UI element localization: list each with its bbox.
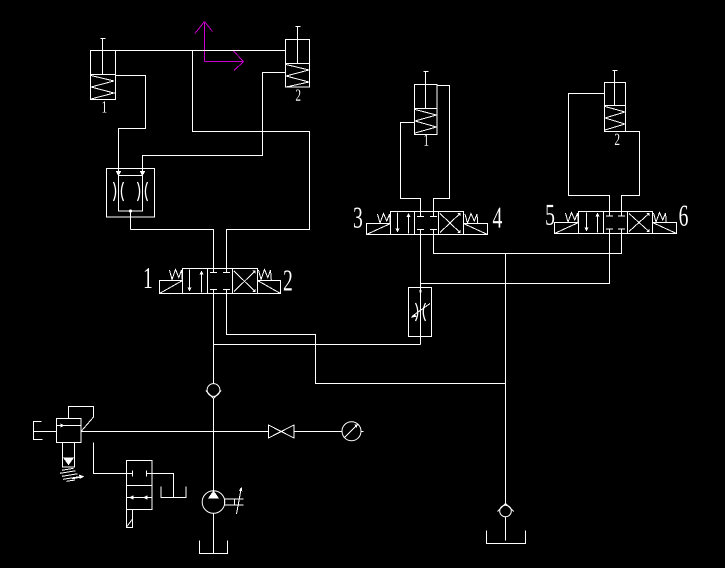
valve V34 4/3 solenoid valve body xyxy=(391,212,464,235)
pump P (variable displacement) xyxy=(202,487,243,514)
wire tank branch down from line A xyxy=(505,254,507,506)
wire flow divider output to valve port A xyxy=(131,211,214,269)
wire pump pressure line (V12 port P down) xyxy=(213,294,215,384)
label 1 (middle actuator) xyxy=(424,134,428,145)
wire check valve CV1 to pump xyxy=(213,399,215,491)
spring left of V34 xyxy=(378,214,391,224)
gauge G (pressure gauge) xyxy=(342,422,364,441)
wire mid cylinder left port to valve V34 xyxy=(401,123,421,212)
solenoid right of V56 xyxy=(653,223,677,234)
wire FCV bottom to pump line xyxy=(214,344,421,346)
solenoid left of V34 xyxy=(367,224,391,235)
actuator cylinder 1 (middle, spring return) xyxy=(415,72,438,135)
wire line A valve V34 port to valve V56 port xyxy=(434,234,622,254)
wire line B FCV tap to valve V56 port xyxy=(421,234,610,284)
label 1 (valve V12 left) xyxy=(145,268,152,288)
label 2 (right actuator) xyxy=(615,134,620,145)
wire right cylinder bottom port to valve V56 xyxy=(622,132,640,212)
label 4 (valve V34 right) xyxy=(493,208,502,228)
cylinder 1 (top-left, spring return) xyxy=(91,39,116,100)
label 2 (cylinder 2) xyxy=(296,89,301,100)
wire pump to tank T1 xyxy=(213,513,215,553)
spring right of V34 xyxy=(465,214,478,224)
flow divider FD xyxy=(107,169,155,218)
label 2 (valve V12 right) xyxy=(284,270,292,290)
label 6 (valve V56 right) xyxy=(679,206,687,226)
wire cylinder1 spring port to flow divider left xyxy=(116,76,146,173)
spring left of V56 xyxy=(566,213,579,223)
check valve CV1 (pump line) xyxy=(206,384,221,399)
wire unloader to tank T3 xyxy=(152,474,174,498)
solenoid left of V12 xyxy=(160,281,183,294)
check valve CV2 (bottom right) xyxy=(498,504,514,517)
wire center drop to valve port B xyxy=(193,51,310,269)
port bracket (left pilot connection) xyxy=(34,422,57,440)
relief valve RV spring (diagonal zigzag with arrow) xyxy=(60,468,84,481)
wire check valve CV2 to tank xyxy=(505,517,507,541)
valve V56 4/3 solenoid valve body xyxy=(579,212,653,234)
solenoid left of V56 xyxy=(555,223,579,234)
wire relief valve drain to unloader xyxy=(94,443,127,474)
label 5 (valve V56 left) xyxy=(546,205,554,225)
tank T1 (pump suction) xyxy=(200,541,228,554)
spring right of V56 xyxy=(654,213,667,223)
wire mid cylinder top port to valve V34 xyxy=(434,86,450,212)
wire right cylinder left port to valve V56 xyxy=(569,94,610,212)
relief valve RV lower stem xyxy=(63,443,75,468)
solenoid right of V34 xyxy=(464,224,488,235)
relief valve RV body xyxy=(57,419,82,443)
unloading valve UV (2 position) xyxy=(127,461,153,528)
UCS axis arrows (magenta) xyxy=(195,22,244,71)
solenoid right of V12 xyxy=(258,281,281,294)
label 3 (valve V34 left) xyxy=(354,208,362,228)
cylinder 2 (top area right, spring return) xyxy=(286,27,310,88)
spring left of V12 xyxy=(170,270,183,281)
wire cylinder2 spring port to flow divider right xyxy=(143,73,286,173)
actuator cylinder 2 (right, spring return) xyxy=(605,71,626,132)
spring right of V12 xyxy=(259,270,272,281)
main line relief valve to gauge xyxy=(81,431,342,433)
wire top rail xyxy=(116,50,286,52)
flow control valve FCV xyxy=(409,235,432,345)
valve V12 4/3 solenoid valve body xyxy=(183,269,258,294)
wire V12 tank port drain xyxy=(227,294,506,384)
tank T3 (unloader drain) xyxy=(161,487,186,498)
tank T2 (bottom right) xyxy=(487,531,526,544)
relief valve RV pilot loop xyxy=(69,407,94,432)
shutoff valve SV (bowtie) xyxy=(269,425,295,438)
label 1 (cylinder 1) xyxy=(102,101,106,112)
